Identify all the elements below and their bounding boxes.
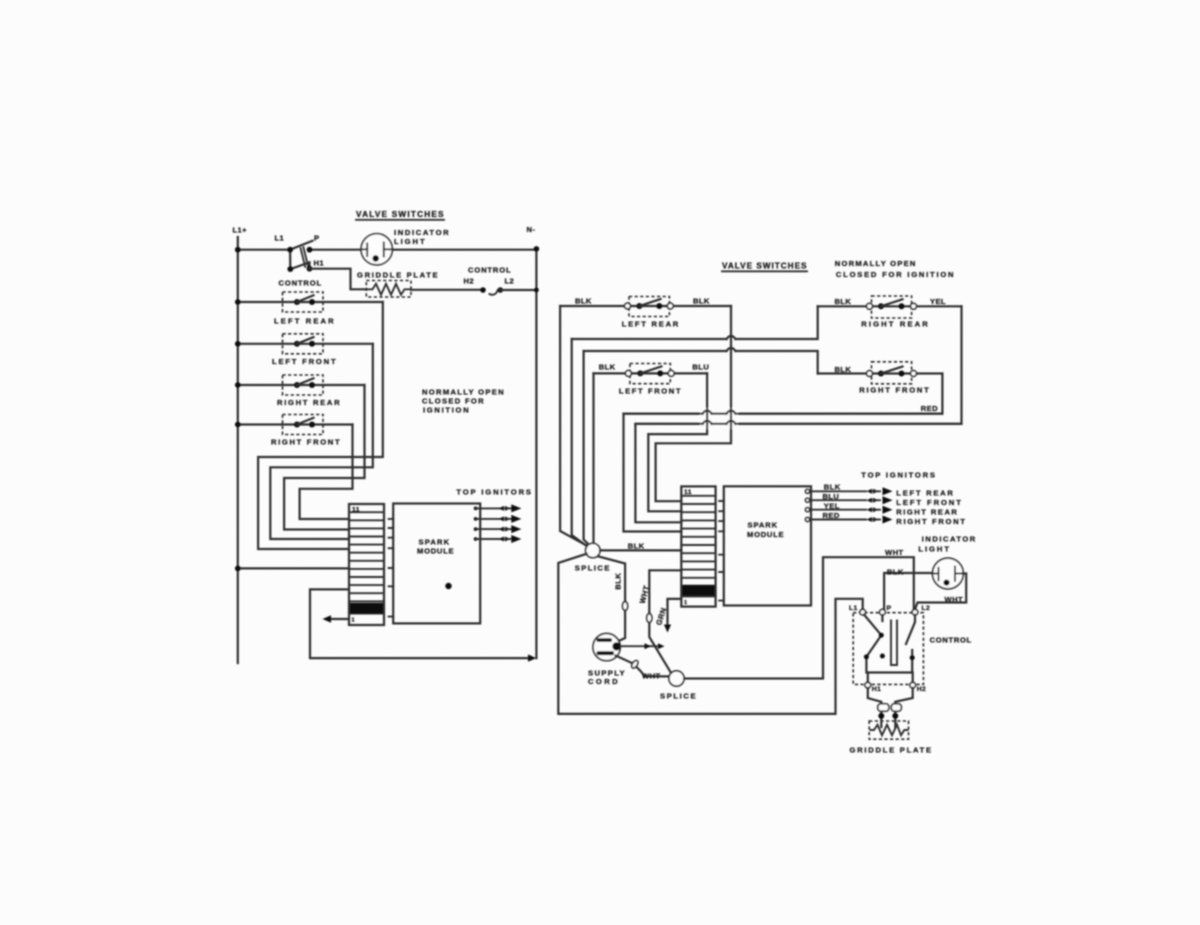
svg-text:RIGHT FRONT: RIGHT FRONT xyxy=(859,386,929,395)
svg-text:GRIDDLE PLATE: GRIDDLE PLATE xyxy=(850,745,932,754)
svg-text:MODULE: MODULE xyxy=(417,547,454,556)
svg-text:RIGHT REAR: RIGHT REAR xyxy=(277,398,340,407)
svg-text:LEFT FRONT: LEFT FRONT xyxy=(619,386,681,395)
svg-text:1: 1 xyxy=(352,618,355,624)
svg-text:L1: L1 xyxy=(849,605,858,612)
svg-text:BLK: BLK xyxy=(824,483,841,492)
svg-text:11: 11 xyxy=(684,489,692,496)
svg-text:L1: L1 xyxy=(275,234,285,243)
svg-text:WHT: WHT xyxy=(945,595,964,604)
svg-text:WHT: WHT xyxy=(885,548,904,557)
svg-text:H2: H2 xyxy=(917,686,926,693)
svg-text:YEL: YEL xyxy=(824,502,840,511)
svg-text:N-: N- xyxy=(527,225,536,234)
svg-text:BLK: BLK xyxy=(575,297,592,306)
svg-text:VALVE SWITCHES: VALVE SWITCHES xyxy=(722,262,807,271)
svg-text:MODULE: MODULE xyxy=(747,530,784,539)
svg-text:BLK: BLK xyxy=(599,363,616,372)
svg-text:CONTROL: CONTROL xyxy=(279,279,322,288)
svg-text:INDICATOR: INDICATOR xyxy=(922,534,976,543)
svg-text:H2: H2 xyxy=(464,277,475,286)
svg-text:LEFT FRONT: LEFT FRONT xyxy=(272,357,336,366)
svg-text:GRIDDLE PLATE: GRIDDLE PLATE xyxy=(357,270,438,279)
svg-text:L2: L2 xyxy=(505,277,515,286)
svg-text:LEFT FRONT: LEFT FRONT xyxy=(896,498,961,507)
svg-text:VALVE SWITCHES: VALVE SWITCHES xyxy=(356,210,444,219)
svg-text:SPLICE: SPLICE xyxy=(575,564,610,573)
svg-text:SPLICE: SPLICE xyxy=(660,692,696,701)
svg-text:CLOSED FOR: CLOSED FOR xyxy=(422,396,484,405)
svg-text:RED: RED xyxy=(921,404,938,413)
svg-text:SPARK: SPARK xyxy=(419,538,450,547)
svg-text:L1+: L1+ xyxy=(233,226,248,235)
svg-text:BLU: BLU xyxy=(692,363,709,372)
svg-text:NORMALLY OPEN: NORMALLY OPEN xyxy=(835,259,916,268)
svg-text:BLK: BLK xyxy=(614,573,623,590)
svg-text:BLK: BLK xyxy=(887,568,904,577)
svg-text:SPARK: SPARK xyxy=(748,521,778,530)
svg-text:BLK: BLK xyxy=(693,297,710,306)
svg-text:1: 1 xyxy=(684,600,687,606)
svg-text:RIGHT REAR: RIGHT REAR xyxy=(896,508,957,517)
svg-text:BLK: BLK xyxy=(835,297,852,306)
svg-text:BLU: BLU xyxy=(823,492,840,501)
svg-text:11: 11 xyxy=(352,506,360,513)
svg-text:CONTROL: CONTROL xyxy=(930,636,972,645)
svg-text:CONTROL: CONTROL xyxy=(468,266,511,275)
svg-text:BLK: BLK xyxy=(628,542,645,551)
svg-text:TOP IGNITORS: TOP IGNITORS xyxy=(456,488,531,497)
svg-text:L2: L2 xyxy=(922,605,931,612)
svg-text:YEL: YEL xyxy=(930,297,946,306)
svg-text:P: P xyxy=(314,234,319,243)
svg-text:LIGHT: LIGHT xyxy=(918,545,949,554)
svg-text:H1: H1 xyxy=(314,259,325,268)
svg-text:H1: H1 xyxy=(872,686,881,693)
svg-text:INDICATOR: INDICATOR xyxy=(394,228,449,237)
svg-text:TOP IGNITORS: TOP IGNITORS xyxy=(861,471,935,480)
svg-text:NORMALLY OPEN: NORMALLY OPEN xyxy=(422,387,504,396)
svg-text:RED: RED xyxy=(823,511,840,520)
svg-text:WHT: WHT xyxy=(642,672,661,681)
svg-text:RIGHT REAR: RIGHT REAR xyxy=(861,320,928,329)
svg-text:BLK: BLK xyxy=(835,365,852,374)
svg-text:LIGHT: LIGHT xyxy=(394,237,425,246)
svg-text:P: P xyxy=(887,605,892,612)
